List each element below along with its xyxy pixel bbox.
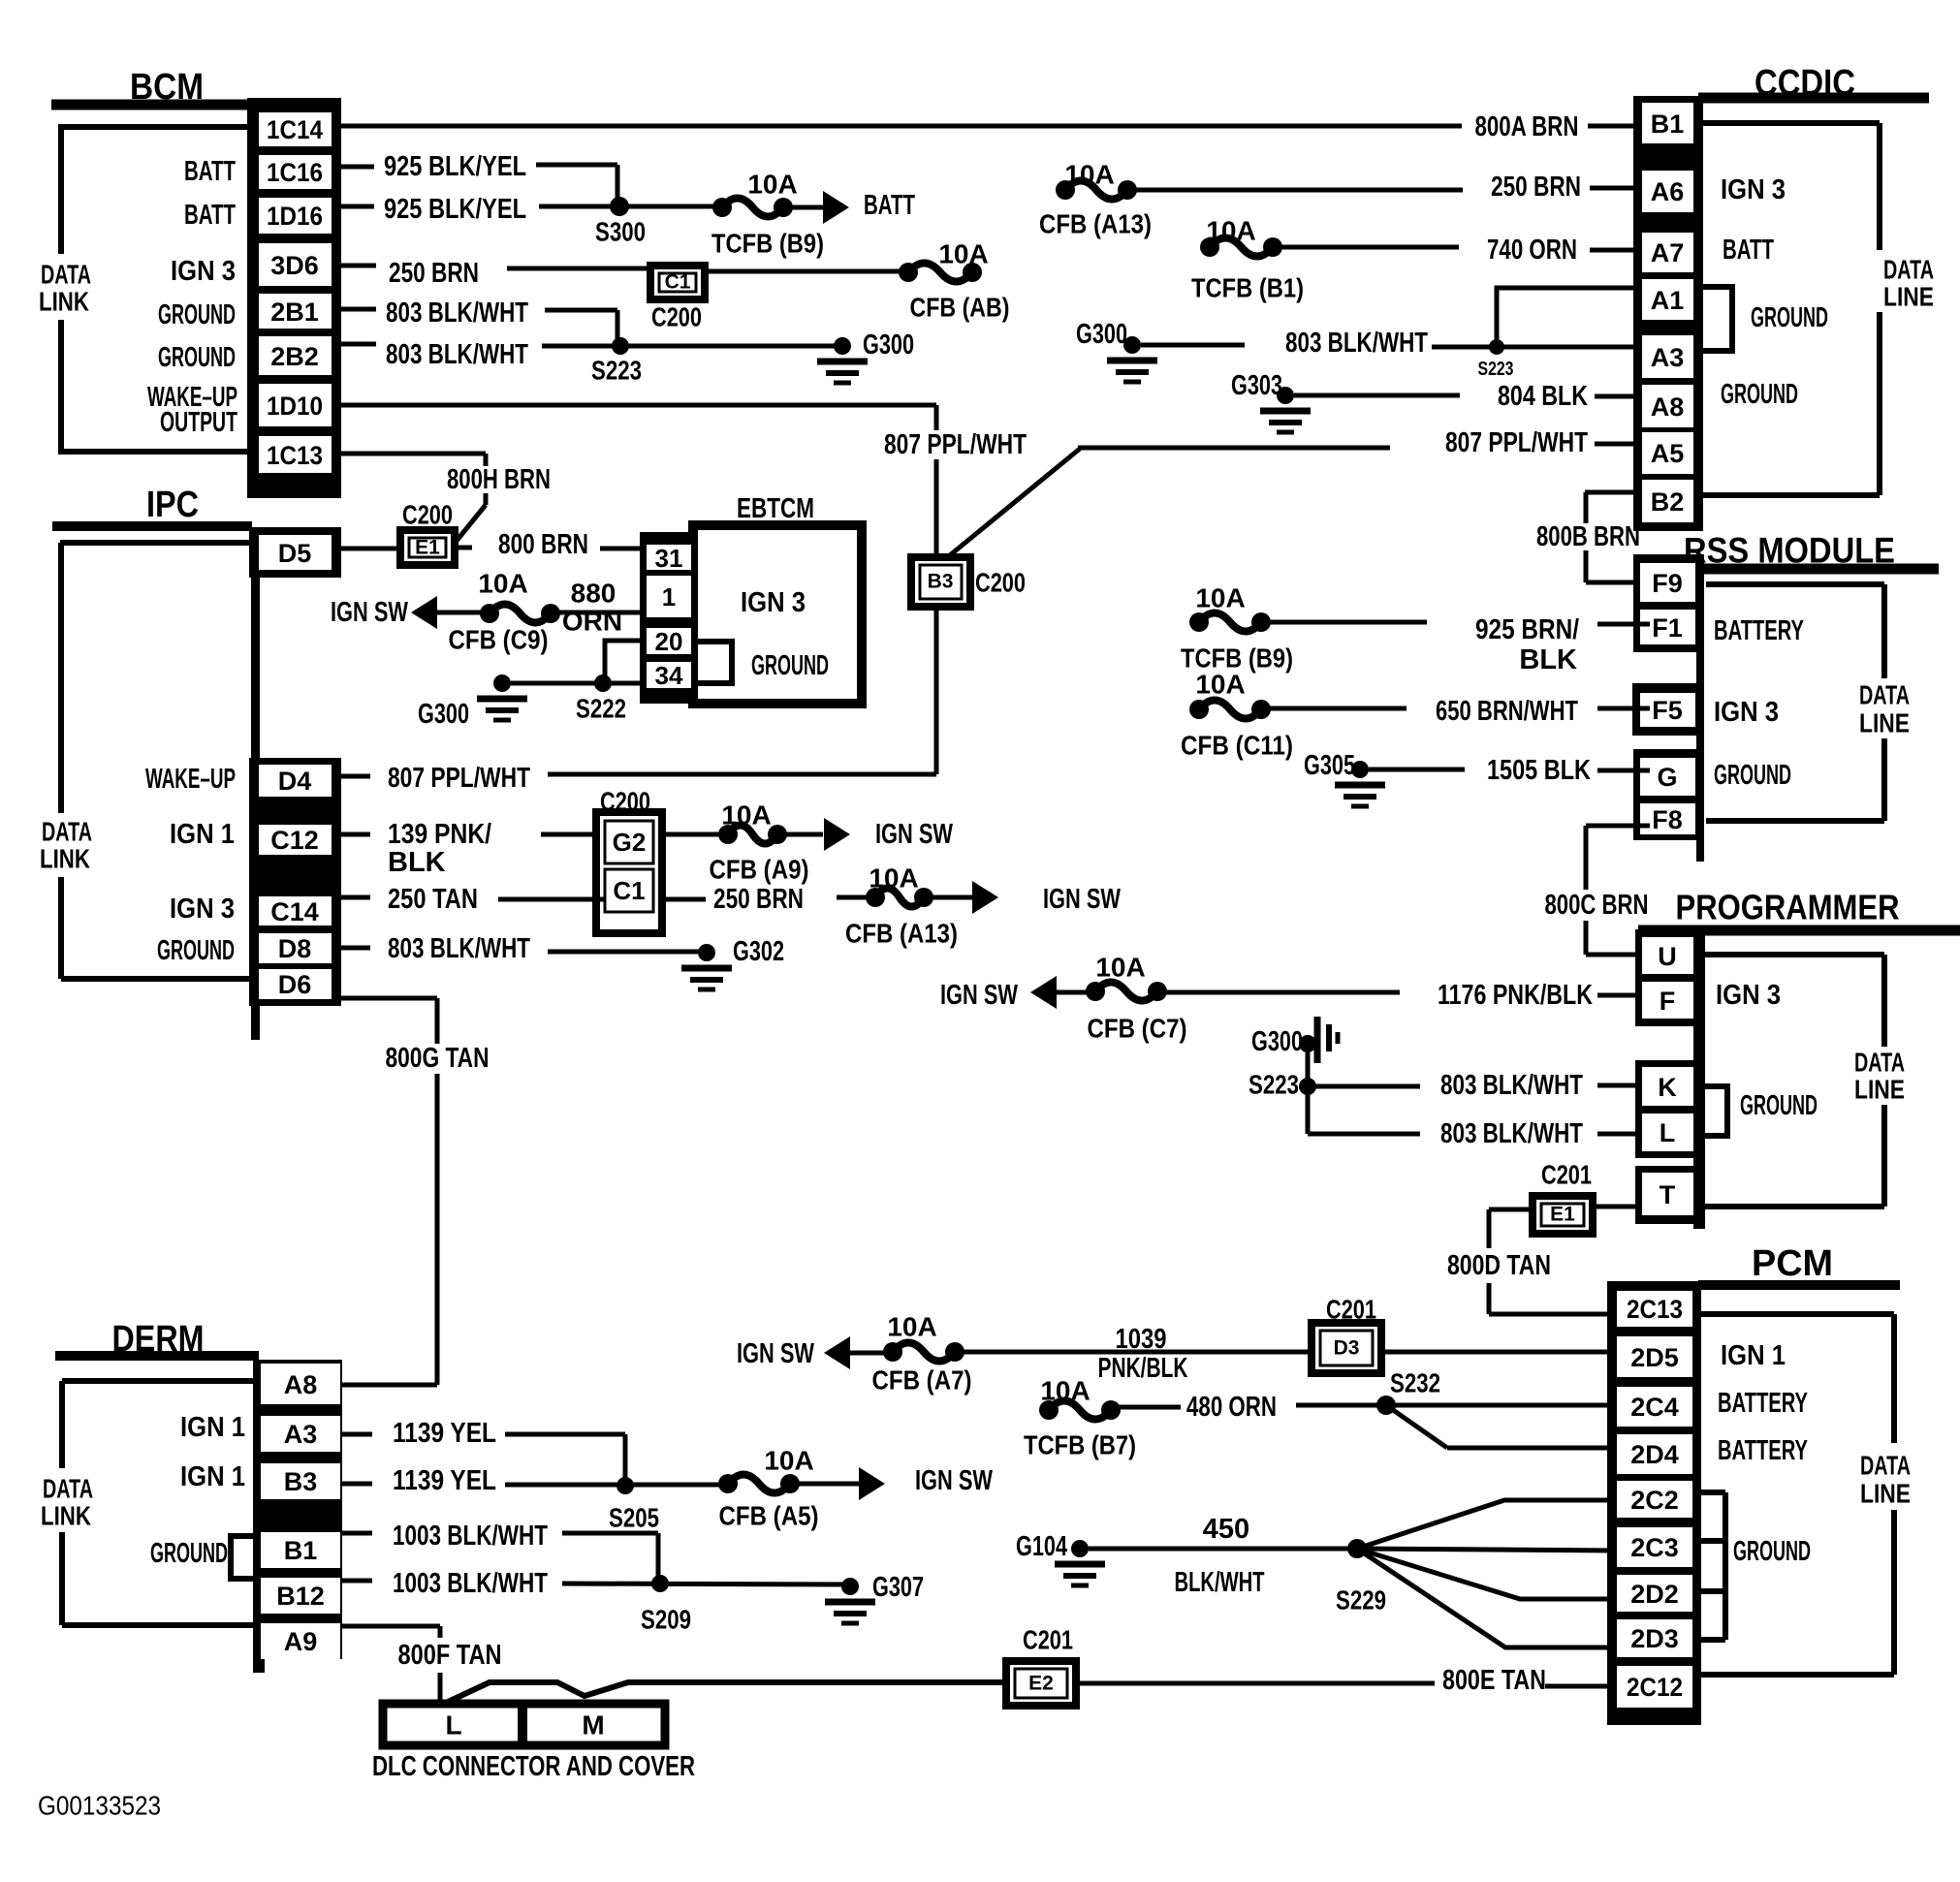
svg-text:DATA: DATA xyxy=(1859,680,1910,710)
svg-text:650 BRN/WHT: 650 BRN/WHT xyxy=(1436,696,1578,727)
pin 1C13 BCM xyxy=(259,436,332,473)
svg-text:EBTCM: EBTCM xyxy=(737,493,814,524)
splice S229 xyxy=(1336,1539,1386,1615)
svg-text:OUTPUT: OUTPUT xyxy=(160,407,237,438)
PROGRAMMER pin function labels xyxy=(1716,980,1818,1121)
svg-text:GROUND: GROUND xyxy=(1733,1536,1811,1567)
connector C200 pin B3 (807 PPL/WHT) xyxy=(911,557,1026,607)
svg-text:1139 YEL: 1139 YEL xyxy=(393,1465,496,1496)
svg-text:800B BRN: 800B BRN xyxy=(1536,521,1640,552)
wire 1139 YEL (DERM B3) xyxy=(342,1465,728,1496)
fuse CFB (A13) 10A (CCDIC A6 feed) xyxy=(1039,160,1152,239)
pin 2D4 PCM xyxy=(1617,1434,1692,1474)
svg-text:IGN SW: IGN SW xyxy=(875,819,953,850)
svg-text:C12: C12 xyxy=(270,826,319,855)
svg-text:LINE: LINE xyxy=(1859,708,1910,738)
svg-text:IGN 1: IGN 1 xyxy=(170,819,235,850)
ground G300 chassis (PROGRAMMER) xyxy=(1251,1017,1338,1063)
wire S229 to PCM 2C3 xyxy=(1357,1549,1617,1551)
svg-text:F9: F9 xyxy=(1652,569,1683,598)
fuse CFB (A9) 10A xyxy=(710,800,809,885)
svg-text:480 ORN: 480 ORN xyxy=(1186,1392,1277,1423)
svg-text:G: G xyxy=(1657,763,1677,792)
wire S229 to PCM 2D2 xyxy=(1357,1549,1617,1599)
svg-text:LINE: LINE xyxy=(1854,1075,1905,1105)
svg-text:A7: A7 xyxy=(1651,238,1685,267)
svg-text:PROGRAMMER: PROGRAMMER xyxy=(1676,888,1900,927)
wire 1C13 800H BRN to E1 xyxy=(341,454,551,541)
IPC pin function labels xyxy=(145,764,236,966)
fuse TCFB (B7) 10A xyxy=(1024,1376,1136,1460)
wire 925 BLK/YEL (BCM 1D16) xyxy=(341,194,713,225)
internal bracket EBTCM pins 20-34 to ground xyxy=(692,642,732,683)
pin 1D16 BCM xyxy=(259,198,332,234)
fuse CFB (A5) 10A xyxy=(718,1446,819,1531)
svg-text:1C13: 1C13 xyxy=(267,441,323,470)
svg-text:BLK: BLK xyxy=(1519,644,1577,675)
svg-text:B3: B3 xyxy=(284,1467,318,1496)
svg-text:B12: B12 xyxy=(276,1582,325,1611)
wire 1003 BLK/WHT (DERM B1) xyxy=(342,1521,658,1584)
svg-text:DATA: DATA xyxy=(43,1474,93,1504)
wire 804 BLK (to CCDIC A8) xyxy=(1294,381,1642,412)
bracket DATA LINE PROGRAMMER xyxy=(1705,955,1905,1207)
svg-text:250 BRN: 250 BRN xyxy=(1491,172,1581,203)
bracket DATA LINK DERM xyxy=(41,1381,253,1625)
pin 2C3 PCM xyxy=(1617,1527,1692,1567)
svg-text:G300: G300 xyxy=(418,699,469,730)
svg-text:TCFB (B7): TCFB (B7) xyxy=(1024,1430,1136,1460)
svg-text:CFB (A7): CFB (A7) xyxy=(872,1365,972,1396)
svg-text:803 BLK/WHT: 803 BLK/WHT xyxy=(388,933,530,964)
svg-text:BATTERY: BATTERY xyxy=(1714,615,1804,646)
svg-text:C200: C200 xyxy=(975,568,1026,598)
svg-text:WAKE–UP: WAKE–UP xyxy=(145,764,236,795)
svg-text:IGN SW: IGN SW xyxy=(331,597,408,628)
DERM pin function labels xyxy=(150,1412,245,1569)
pin B1 DERM xyxy=(261,1532,340,1568)
svg-text:10A: 10A xyxy=(764,1446,813,1476)
svg-text:880: 880 xyxy=(571,579,616,609)
wire to IGN SW arrow (B3 row) xyxy=(798,1465,993,1500)
svg-text:250 BRN: 250 BRN xyxy=(713,884,804,915)
wire IGN SW arrow (PROGRAMMER F row) xyxy=(940,976,1095,1011)
svg-text:DATA: DATA xyxy=(1854,1048,1905,1078)
svg-text:10A: 10A xyxy=(869,863,918,894)
pin A1 CCDIC xyxy=(1642,279,1693,320)
wire 250 BRN (BCM 3D6) xyxy=(341,258,650,289)
svg-text:CFB (A9): CFB (A9) xyxy=(710,855,809,885)
bracket PROGRAMMER K-L ground xyxy=(1705,1086,1727,1136)
splice S205 xyxy=(609,1477,659,1533)
svg-text:S205: S205 xyxy=(609,1503,659,1533)
svg-text:2B1: 2B1 xyxy=(270,298,319,327)
pin D6 IPC xyxy=(259,969,332,999)
connector strip EBTCM xyxy=(640,532,693,704)
svg-text:LINK: LINK xyxy=(39,287,89,317)
pin B2 CCDIC xyxy=(1642,480,1693,522)
svg-text:800 BRN: 800 BRN xyxy=(498,529,588,560)
svg-text:C201: C201 xyxy=(1023,1625,1073,1655)
svg-text:1C14: 1C14 xyxy=(267,115,323,144)
svg-text:S222: S222 xyxy=(576,694,626,724)
ground G303 xyxy=(1231,370,1311,432)
connector C201 pin E1 (T row) xyxy=(1533,1160,1642,1235)
wire IGN SW arrow (PCM 2D5 row) xyxy=(737,1336,893,1369)
svg-text:10A: 10A xyxy=(1064,160,1114,190)
svg-text:1505 BLK: 1505 BLK xyxy=(1487,755,1591,786)
bracket DATA LINK IPC xyxy=(40,543,251,979)
ground G305 xyxy=(1304,750,1385,806)
svg-text:IGN SW: IGN SW xyxy=(737,1338,814,1369)
svg-text:LINK: LINK xyxy=(40,844,90,874)
svg-text:S223: S223 xyxy=(1478,359,1514,380)
DLC cover curve and wire to E2 xyxy=(446,1682,1006,1703)
svg-text:139 PNK/: 139 PNK/ xyxy=(388,819,491,850)
pin A5 CCDIC xyxy=(1642,432,1693,474)
svg-text:A3: A3 xyxy=(284,1420,318,1449)
wire S229 to PCM 2D3 xyxy=(1357,1549,1617,1647)
fuse TCFB (B1) 10A xyxy=(1191,216,1304,303)
fuse CFB (C7) 10A xyxy=(1086,953,1187,1044)
svg-text:G300: G300 xyxy=(1251,1026,1303,1057)
wire 740 ORN (to CCDIC A7) xyxy=(1280,235,1642,266)
wire B3 down to IPC D4 row xyxy=(934,607,939,774)
svg-text:E1: E1 xyxy=(1550,1204,1575,1226)
pin C12 IPC xyxy=(259,825,332,855)
svg-text:G302: G302 xyxy=(733,936,784,967)
wire 250 BRN (C1 to fuse CFB (A13)) xyxy=(662,884,875,915)
svg-text:A8: A8 xyxy=(1651,392,1685,422)
svg-text:31: 31 xyxy=(655,544,683,573)
pin B3 DERM xyxy=(261,1463,340,1499)
svg-text:1003 BLK/WHT: 1003 BLK/WHT xyxy=(393,1521,548,1552)
pin B1 CCDIC xyxy=(1642,103,1693,143)
svg-text:800D TAN: 800D TAN xyxy=(1447,1250,1551,1281)
wire 450 BLK/WHT (G104 to S229) xyxy=(1089,1514,1357,1598)
svg-text:K: K xyxy=(1658,1073,1677,1102)
module title PROGRAMMER xyxy=(1638,888,1960,931)
svg-text:803 BLK/WHT: 803 BLK/WHT xyxy=(386,339,528,370)
wire to IGN SW arrow (C12 row) xyxy=(785,818,953,851)
module title RSS MODULE xyxy=(1684,531,1939,571)
svg-text:10A: 10A xyxy=(1095,953,1145,983)
connector C200 pins G2 C1 (C12/C14 rows) xyxy=(596,787,662,934)
svg-text:L: L xyxy=(445,1710,461,1741)
svg-text:10A: 10A xyxy=(1040,1376,1090,1406)
CCDIC pin function labels xyxy=(1721,174,1828,410)
module title CCDIC xyxy=(1698,63,1929,104)
svg-text:T: T xyxy=(1660,1180,1676,1209)
bracket CCDIC A1-A3 ground xyxy=(1695,287,1732,351)
wire to BATT arrow xyxy=(791,190,915,224)
svg-text:1: 1 xyxy=(662,582,676,612)
connector strip DERM xyxy=(253,1360,342,1673)
svg-text:10A: 10A xyxy=(1206,216,1255,246)
wire 803 BLK/WHT (to CCDIC A3) xyxy=(1141,328,1642,359)
module title DERM xyxy=(55,1319,259,1360)
splice S222 xyxy=(576,674,626,724)
svg-text:10A: 10A xyxy=(887,1312,936,1342)
svg-text:800H BRN: 800H BRN xyxy=(447,464,551,495)
svg-text:L: L xyxy=(1660,1118,1676,1147)
pin T PROGRAMMER xyxy=(1642,1173,1693,1215)
wire 800 BRN (E1 to EBTCM 31) xyxy=(455,529,647,560)
splice S300 xyxy=(595,197,646,247)
svg-text:IGN SW: IGN SW xyxy=(1043,884,1121,915)
pin A7 CCDIC xyxy=(1642,233,1693,272)
pin 2B1 BCM xyxy=(259,294,332,329)
svg-text:A3: A3 xyxy=(1651,343,1685,372)
fuse CFB (C11) 10A xyxy=(1181,670,1293,761)
svg-text:D6: D6 xyxy=(278,970,312,999)
svg-text:LINK: LINK xyxy=(41,1501,91,1531)
svg-text:250 TAN: 250 TAN xyxy=(388,884,478,915)
svg-text:BATTERY: BATTERY xyxy=(1718,1435,1808,1466)
ground G104 xyxy=(1016,1531,1105,1585)
svg-text:C200: C200 xyxy=(402,500,453,530)
fuse CFB (C9) 10A xyxy=(449,569,561,655)
pin F9 RSS xyxy=(1640,563,1695,602)
svg-text:G00133523: G00133523 xyxy=(38,1791,161,1821)
module title IPC xyxy=(52,485,252,526)
svg-text:450: 450 xyxy=(1203,1514,1249,1545)
pin D8 IPC xyxy=(259,933,332,963)
wire 803 BLK/WHT (IPC D8) xyxy=(340,933,707,964)
svg-text:1039: 1039 xyxy=(1116,1324,1167,1355)
svg-text:F1: F1 xyxy=(1652,613,1683,643)
svg-text:10A: 10A xyxy=(938,239,988,269)
wire 650 BRN/WHT (to RSS F5) xyxy=(1269,696,1650,727)
svg-text:803 BLK/WHT: 803 BLK/WHT xyxy=(1285,328,1428,359)
connector C201 pin D3 (2D5 row) xyxy=(1312,1295,1381,1374)
svg-text:B1: B1 xyxy=(284,1536,318,1565)
svg-text:BLK: BLK xyxy=(388,847,446,878)
svg-text:IGN 3: IGN 3 xyxy=(1716,980,1781,1011)
module title PCM xyxy=(1698,1243,1900,1285)
svg-text:CFB (C7): CFB (C7) xyxy=(1088,1014,1187,1044)
pin F5 RSS xyxy=(1640,693,1695,727)
pin U PROGRAMMER xyxy=(1642,937,1693,974)
svg-text:TCFB (B1): TCFB (B1) xyxy=(1191,273,1304,303)
svg-text:C1: C1 xyxy=(613,876,645,905)
pin A3 CCDIC xyxy=(1642,335,1693,378)
connector DLC xyxy=(383,1704,665,1745)
svg-text:10A: 10A xyxy=(1195,583,1245,613)
svg-text:807 PPL/WHT: 807 PPL/WHT xyxy=(1445,427,1588,458)
svg-text:807 PPL/WHT: 807 PPL/WHT xyxy=(884,429,1027,460)
wire 925 BLK/YEL (BCM 1C16) xyxy=(341,151,617,206)
svg-text:D8: D8 xyxy=(278,934,312,963)
wire 1505 BLK (to RSS G) xyxy=(1369,755,1650,786)
pin G RSS xyxy=(1640,758,1695,796)
bracket PCM ground pins xyxy=(1695,1492,1725,1640)
wire 803 BLK/WHT (to PROGRAMMER K) xyxy=(1308,1070,1642,1101)
svg-text:10A: 10A xyxy=(747,170,797,200)
svg-text:S223: S223 xyxy=(1249,1070,1299,1100)
connector C200 pin C1 (3D6 row) xyxy=(650,266,705,332)
svg-text:BATT: BATT xyxy=(184,156,236,187)
svg-text:CFB (A13): CFB (A13) xyxy=(845,919,958,949)
svg-text:BATT: BATT xyxy=(864,190,915,221)
ground G307 xyxy=(825,1572,924,1623)
module box EBTCM xyxy=(693,493,862,704)
fuse TCFB (B9) 10A xyxy=(711,170,824,259)
splice S232 xyxy=(1376,1368,1440,1416)
fuse CFB (A13) 10A xyxy=(845,863,958,949)
pin L PROGRAMMER xyxy=(1642,1114,1693,1151)
svg-text:IPC: IPC xyxy=(146,485,199,525)
pin 1C14 BCM xyxy=(259,112,332,146)
svg-text:GROUND: GROUND xyxy=(1714,760,1791,791)
svg-text:DATA: DATA xyxy=(1883,255,1934,285)
svg-text:DLC CONNECTOR AND COVER: DLC CONNECTOR AND COVER xyxy=(372,1751,695,1782)
svg-text:B2: B2 xyxy=(1651,487,1685,517)
svg-text:1176 PNK/BLK: 1176 PNK/BLK xyxy=(1438,980,1593,1011)
svg-text:2C2: 2C2 xyxy=(1630,1486,1679,1515)
wire 800A BRN (BCM 1C14 to CCDIC B1) xyxy=(341,111,1642,142)
svg-text:IGN 3: IGN 3 xyxy=(741,587,806,618)
svg-text:1D16: 1D16 xyxy=(267,202,323,231)
svg-text:S229: S229 xyxy=(1336,1585,1386,1615)
connector strip RSS MODULE xyxy=(1632,554,1704,862)
connector strip BCM xyxy=(247,98,341,498)
ground G300 (CCDIC) xyxy=(1076,319,1157,382)
svg-text:DATA: DATA xyxy=(1860,1451,1911,1481)
svg-text:IGN 3: IGN 3 xyxy=(171,256,236,287)
svg-text:1003 BLK/WHT: 1003 BLK/WHT xyxy=(393,1568,548,1599)
pin 2C12 PCM xyxy=(1617,1666,1692,1708)
wire 3D6 to fuse CFB (AB) xyxy=(705,269,908,274)
svg-text:BATT: BATT xyxy=(184,200,236,231)
pin D4 IPC xyxy=(259,765,332,797)
svg-text:800C BRN: 800C BRN xyxy=(1545,890,1649,921)
svg-text:B1: B1 xyxy=(1651,110,1685,139)
svg-text:800A BRN: 800A BRN xyxy=(1475,111,1579,142)
svg-text:F8: F8 xyxy=(1652,805,1683,834)
svg-text:S223: S223 xyxy=(591,356,642,386)
connector strip CCDIC xyxy=(1633,96,1703,531)
svg-text:GROUND: GROUND xyxy=(1740,1090,1818,1121)
svg-text:1C16: 1C16 xyxy=(267,158,323,187)
wire 139 PNK/BLK (IPC C12) xyxy=(340,819,605,878)
splice S223 (PROGRAMMER) xyxy=(1249,1070,1316,1100)
svg-text:CFB (C9): CFB (C9) xyxy=(449,625,549,655)
svg-text:CFB (AB): CFB (AB) xyxy=(910,293,1010,323)
svg-text:D3: D3 xyxy=(1334,1337,1360,1360)
wire 1176 PNK/BLK (to PROGRAMMER F) xyxy=(1165,980,1642,1011)
pin A8 CCDIC xyxy=(1642,385,1693,427)
svg-text:BLK/WHT: BLK/WHT xyxy=(1175,1567,1265,1598)
svg-text:G300: G300 xyxy=(1076,319,1127,350)
svg-text:CFB (A13): CFB (A13) xyxy=(1039,209,1152,239)
svg-text:2D5: 2D5 xyxy=(1630,1343,1679,1372)
wire 1003 BLK/WHT (DERM B12) xyxy=(342,1568,850,1599)
svg-text:PNK/BLK: PNK/BLK xyxy=(1098,1353,1188,1384)
svg-text:A1: A1 xyxy=(1651,286,1685,315)
fuse CFB (AB) 10A xyxy=(899,239,1010,323)
svg-text:2D4: 2D4 xyxy=(1630,1440,1679,1469)
svg-text:800G TAN: 800G TAN xyxy=(386,1043,490,1074)
fuse CFB (A7) 10A xyxy=(872,1312,972,1396)
wire 803 BLK/WHT (to PROGRAMMER L) xyxy=(1308,1086,1642,1149)
svg-text:2C4: 2C4 xyxy=(1630,1393,1679,1422)
svg-text:10A: 10A xyxy=(478,569,527,599)
svg-text:F: F xyxy=(1660,987,1676,1016)
svg-text:DATA: DATA xyxy=(42,817,92,847)
svg-text:GROUND: GROUND xyxy=(1751,302,1828,333)
svg-text:E1: E1 xyxy=(415,537,440,559)
ground G300 (EBTCM) xyxy=(418,674,527,730)
splice S209 xyxy=(641,1575,691,1635)
bracket DATA LINE CCDIC xyxy=(1703,123,1934,495)
svg-text:925 BRN/: 925 BRN/ xyxy=(1475,614,1579,645)
svg-text:2D2: 2D2 xyxy=(1630,1580,1679,1609)
svg-text:A6: A6 xyxy=(1651,177,1685,206)
svg-text:G2: G2 xyxy=(613,828,647,857)
module title BCM xyxy=(51,67,254,108)
svg-text:G303: G303 xyxy=(1231,370,1282,401)
wire 800D TAN (E1 to PCM 2C13) xyxy=(1447,1209,1617,1314)
svg-text:G300: G300 xyxy=(863,329,914,361)
pin 2D5 PCM xyxy=(1617,1336,1692,1377)
svg-text:IGN 1: IGN 1 xyxy=(180,1461,245,1492)
wire G300 down to S223 xyxy=(1306,1044,1311,1086)
svg-text:U: U xyxy=(1658,942,1677,971)
svg-text:CFB (A5): CFB (A5) xyxy=(719,1501,819,1531)
svg-text:BATTERY: BATTERY xyxy=(1718,1388,1808,1419)
bracket DATA LINK BCM xyxy=(39,127,254,452)
svg-text:GROUND: GROUND xyxy=(158,299,236,330)
wire to IGN SW arrow (C14 row) xyxy=(932,881,1121,915)
pin 2C13 PCM xyxy=(1617,1291,1692,1327)
wire EBTCM pin 20 bracket to S222 xyxy=(605,641,640,681)
svg-text:3D6: 3D6 xyxy=(270,251,319,280)
svg-text:G104: G104 xyxy=(1016,1531,1067,1562)
pin 2C2 PCM xyxy=(1617,1481,1692,1518)
RSS pin function labels xyxy=(1714,615,1804,791)
wire 880 ORN (fuse to EBTCM pin 1) xyxy=(558,579,647,637)
svg-text:IGN 3: IGN 3 xyxy=(1714,697,1779,728)
svg-text:S300: S300 xyxy=(595,217,646,247)
pin F8 RSS xyxy=(1640,803,1695,834)
pin D5 IPC xyxy=(259,535,332,570)
svg-text:20: 20 xyxy=(655,627,683,656)
svg-text:M: M xyxy=(582,1710,604,1741)
svg-text:10A: 10A xyxy=(1195,670,1245,700)
wire IGN SW arrow (EBTCM pin 1 row) xyxy=(331,596,490,629)
svg-text:C14: C14 xyxy=(270,897,319,926)
wire 800E TAN (E2 to PCM 2C12) xyxy=(1076,1665,1617,1696)
svg-text:1139 YEL: 1139 YEL xyxy=(393,1418,496,1449)
svg-text:1D10: 1D10 xyxy=(267,392,323,421)
svg-text:S209: S209 xyxy=(641,1605,691,1635)
pin F PROGRAMMER xyxy=(1642,982,1693,1019)
connector C200 pin E1 (D5 row) xyxy=(400,500,455,566)
svg-text:CFB (C11): CFB (C11) xyxy=(1181,731,1293,761)
wire 807 PPL/WHT (IPC D4) xyxy=(340,763,936,794)
svg-text:S232: S232 xyxy=(1390,1368,1440,1398)
svg-text:C1: C1 xyxy=(665,271,691,294)
pin A6 CCDIC xyxy=(1642,171,1693,212)
svg-text:803 BLK/WHT: 803 BLK/WHT xyxy=(1440,1118,1583,1149)
svg-text:925 BLK/YEL: 925 BLK/YEL xyxy=(384,194,526,225)
pin 2C4 PCM xyxy=(1617,1387,1692,1427)
wire IPC D5 to connector E1 xyxy=(336,547,400,551)
PCM pin function labels xyxy=(1718,1340,1811,1567)
svg-text:GROUND: GROUND xyxy=(1721,379,1798,410)
splice S223 (CCDIC) xyxy=(1478,339,1514,380)
